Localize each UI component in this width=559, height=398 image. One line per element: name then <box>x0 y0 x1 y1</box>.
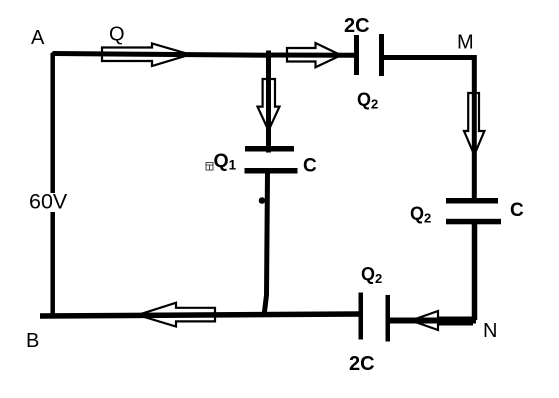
wire from 2C to node M and down <box>383 58 474 199</box>
capacitor 2C bottom: right plate <box>386 295 391 342</box>
junction dot on middle branch <box>259 197 266 204</box>
svg-text:B: B <box>26 330 39 352</box>
capacitor 2C top: right plate <box>379 34 384 76</box>
svg-text:C: C <box>303 156 317 177</box>
svg-text:C: C <box>510 200 524 221</box>
svg-text:M: M <box>457 32 474 54</box>
capacitor C middle: top plate <box>245 146 294 152</box>
current arrow down right branch (hollow) <box>464 93 484 155</box>
svg-text:2C: 2C <box>349 353 375 375</box>
svg-text:N: N <box>483 320 497 342</box>
wire top from junction to capacitor 2C <box>266 53 356 58</box>
wire bottom left from 2C to node B <box>40 314 360 316</box>
current arrow into 2C (hollow, pointing right) <box>287 43 341 67</box>
capacitor 2C top: left plate <box>354 35 359 75</box>
svg-text:60V: 60V <box>29 190 68 214</box>
current arrow down middle branch (hollow) <box>258 79 280 131</box>
wire top from A to middle junction <box>54 54 269 56</box>
svg-text:2C: 2C <box>344 15 370 37</box>
svg-text:A: A <box>31 27 45 49</box>
wire bottom right from corner to 2C <box>389 318 476 324</box>
wire middle branch upper <box>266 51 271 153</box>
capacitor C middle: bottom plate <box>245 168 298 174</box>
capacitor 2C bottom: left plate <box>359 293 364 340</box>
current arrow near N (hollow, pointing left) <box>411 311 438 330</box>
wire left upper (A down to 60V gap) <box>50 53 55 193</box>
svg-text:Q: Q <box>109 24 125 46</box>
wire left lower (60V gap down to B) <box>50 212 55 318</box>
capacitor C right: bottom plate <box>446 219 501 225</box>
wire middle branch lower <box>264 173 268 316</box>
missing-glyph box before Q1 <box>206 163 213 171</box>
wire thick tail of arrow near N <box>437 317 473 326</box>
current arrow Q (hollow, pointing right) <box>102 44 190 67</box>
capacitor C right: top plate <box>446 198 498 204</box>
current arrow bottom left (hollow, pointing left) <box>138 303 215 327</box>
wire right branch down to node N <box>472 224 478 320</box>
